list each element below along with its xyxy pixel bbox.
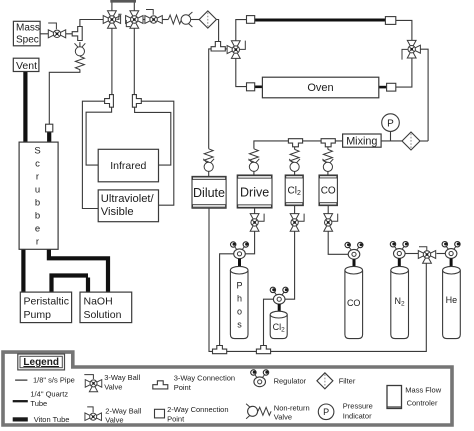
svg-text:Infrared: Infrared bbox=[110, 160, 146, 172]
svg-text:Viton Tube: Viton Tube bbox=[34, 415, 70, 424]
svg-text:He: He bbox=[446, 295, 458, 305]
svg-text:Mass Flow: Mass Flow bbox=[405, 386, 441, 395]
svg-text:Point: Point bbox=[167, 415, 185, 424]
svg-text:s: s bbox=[237, 320, 242, 330]
svg-text:Non-return: Non-return bbox=[274, 404, 310, 413]
svg-text:NaOH: NaOH bbox=[84, 296, 113, 308]
svg-text:1/4" Quartz: 1/4" Quartz bbox=[30, 390, 68, 399]
svg-text:Valve: Valve bbox=[105, 416, 123, 425]
svg-text:2-Way Connection: 2-Way Connection bbox=[167, 405, 228, 414]
svg-text:P: P bbox=[323, 407, 329, 417]
svg-text:Drive: Drive bbox=[240, 186, 269, 200]
svg-text:Filter: Filter bbox=[339, 377, 356, 386]
svg-text:Spec: Spec bbox=[16, 35, 39, 46]
svg-text:Vent: Vent bbox=[16, 60, 37, 72]
svg-text:P: P bbox=[236, 281, 242, 291]
svg-text:S: S bbox=[34, 146, 40, 157]
svg-text:Valve: Valve bbox=[104, 383, 122, 392]
svg-text:Peristaltic: Peristaltic bbox=[24, 296, 70, 308]
svg-text:Visible: Visible bbox=[101, 206, 134, 218]
svg-text:Regulator: Regulator bbox=[274, 377, 307, 386]
svg-text:Mixing: Mixing bbox=[346, 136, 377, 148]
svg-text:Ultraviolet/: Ultraviolet/ bbox=[101, 193, 155, 205]
svg-text:Dilute: Dilute bbox=[193, 186, 225, 200]
svg-text:Indicator: Indicator bbox=[343, 412, 372, 421]
svg-text:Controler: Controler bbox=[407, 399, 438, 408]
svg-text:CO: CO bbox=[347, 298, 361, 308]
svg-text:CO: CO bbox=[321, 186, 336, 197]
svg-text:u: u bbox=[35, 185, 40, 196]
svg-text:P: P bbox=[387, 118, 394, 129]
svg-text:r: r bbox=[36, 172, 39, 183]
svg-text:Oven: Oven bbox=[307, 82, 333, 94]
svg-text:Pump: Pump bbox=[24, 309, 52, 321]
svg-text:b: b bbox=[35, 211, 40, 222]
svg-text:Valve: Valve bbox=[274, 413, 292, 422]
svg-text:c: c bbox=[35, 159, 40, 170]
svg-text:o: o bbox=[237, 307, 242, 317]
svg-text:Point: Point bbox=[174, 383, 192, 392]
svg-text:e: e bbox=[35, 224, 40, 235]
svg-text:1/8" s/s Pipe: 1/8" s/s Pipe bbox=[33, 376, 75, 385]
svg-text:Tube: Tube bbox=[30, 399, 47, 408]
svg-text:Pressure: Pressure bbox=[343, 402, 373, 411]
svg-text:2-Way Ball: 2-Way Ball bbox=[105, 407, 141, 416]
svg-text:3-Way Ball: 3-Way Ball bbox=[104, 373, 140, 382]
svg-text:b: b bbox=[35, 198, 40, 209]
svg-text:r: r bbox=[36, 237, 39, 248]
svg-text:Mass: Mass bbox=[16, 23, 40, 34]
svg-text:Solution: Solution bbox=[84, 309, 122, 321]
svg-text:Legend: Legend bbox=[23, 357, 59, 368]
svg-text:h: h bbox=[237, 294, 242, 304]
svg-text:3-Way Connection: 3-Way Connection bbox=[174, 374, 235, 383]
